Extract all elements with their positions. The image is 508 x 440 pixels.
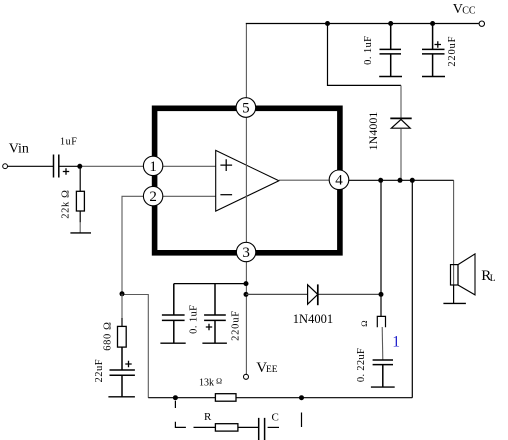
- VEE terminal: [244, 374, 249, 379]
- resistor 680 lead: [121, 294, 123, 327]
- label 220uF top: [447, 36, 458, 67]
- svg-text:1uF: 1uF: [60, 136, 77, 147]
- resistor 22k lead to ground: [79, 211, 81, 233]
- resistor 680 ohm body: [118, 326, 127, 347]
- pin 1: [143, 156, 162, 175]
- op-amp plus input mark: [220, 159, 232, 171]
- wire corner to diode D1: [400, 85, 402, 118]
- input terminal: [3, 164, 8, 169]
- svg-text:4: 4: [335, 173, 343, 189]
- label 1N4001 top: [366, 112, 380, 151]
- label 0.1uF bottom: [188, 305, 199, 334]
- label VCC: [453, 2, 476, 17]
- junction dot diode row: [244, 292, 249, 297]
- dashed stub left of RC branch: [175, 401, 186, 428]
- pin 5: [236, 98, 256, 118]
- svg-text:22k Ω: 22k Ω: [61, 189, 72, 218]
- svg-text:220uF: 220uF: [231, 310, 242, 341]
- wire pin 3 riser to VEE: [245, 262, 247, 375]
- dashed stub right of C: [268, 426, 279, 428]
- IC box: [155, 108, 340, 253]
- svg-text:Ω: Ω: [216, 377, 222, 386]
- ground 0.22uF: [371, 386, 395, 388]
- pin 2: [143, 186, 162, 205]
- capacitor top 220uF: [422, 24, 445, 77]
- svg-text:EE: EE: [266, 365, 278, 375]
- ground top 220uF: [422, 76, 445, 78]
- junction dot rail middle: [398, 178, 403, 183]
- op-amp U1 triangle: [216, 150, 279, 211]
- label VEE: [256, 360, 278, 376]
- capacitor 22uF: [110, 347, 135, 397]
- capacitor C 1uF: [54, 155, 59, 178]
- junction dot bottom rail left: [173, 395, 178, 400]
- capacitor bottom 0.1uF: [162, 284, 185, 344]
- wire R to C: [238, 426, 259, 428]
- junction dot rail right: [410, 178, 415, 183]
- wire pin 2 to op-amp: [153, 195, 216, 197]
- wire pin 5 riser to VCC rail: [245, 24, 247, 99]
- svg-text:0. 1uF: 0. 1uF: [188, 305, 199, 334]
- wire VCC to diode corner: [328, 24, 402, 86]
- ground bottom 0.1uF: [160, 342, 185, 344]
- svg-text:Vin: Vin: [9, 142, 29, 157]
- svg-text:CC: CC: [462, 6, 476, 17]
- svg-text:L: L: [490, 274, 496, 284]
- wire diode D1 to pin 4 rail: [400, 129, 402, 181]
- wire feedback pin 2 left and down: [122, 196, 153, 293]
- polarity plus 22uF: [125, 361, 131, 367]
- wire speaker riser: [453, 180, 455, 284]
- node A junction dot: [77, 164, 82, 169]
- label ohm small: [359, 320, 369, 327]
- pin 3: [236, 242, 255, 261]
- label Vin: [9, 142, 29, 157]
- polarity plus bottom 220uF: [206, 324, 212, 330]
- ground top 0.1uF: [379, 76, 402, 78]
- wire feedback branch to bottom rail: [122, 295, 148, 398]
- label blue 1: [392, 333, 400, 350]
- label 13k ohm: [199, 377, 222, 389]
- polarity plus 1uF: [63, 168, 69, 174]
- VCC terminal: [479, 21, 484, 26]
- junction dot caps rail: [244, 281, 249, 286]
- svg-text:C: C: [272, 412, 279, 424]
- label 0.22uF: [356, 348, 367, 382]
- label C: [272, 412, 279, 424]
- junction dot feedback node: [120, 291, 125, 296]
- wire cap to node A: [59, 165, 80, 167]
- rail pin3 caps: [174, 283, 246, 285]
- label 0.1uF top: [363, 36, 374, 65]
- svg-text:1: 1: [392, 333, 400, 350]
- dashed stub right end RC branch: [301, 413, 303, 428]
- label 220uF bottom: [231, 310, 242, 341]
- resistor 1 ohm body: [377, 316, 385, 327]
- capacitor 0.22uF: [373, 360, 393, 387]
- svg-text:13k: 13k: [199, 378, 214, 389]
- junction dot VCC rail 2: [388, 21, 393, 26]
- junction dot VCC rail 3: [430, 21, 435, 26]
- svg-text:0. 1uF: 0. 1uF: [363, 36, 374, 65]
- svg-text:22uF: 22uF: [94, 359, 105, 383]
- diode D2 1N4001: [308, 284, 318, 305]
- label 1uF: [60, 136, 77, 147]
- label 1N4001 bottom: [293, 312, 333, 326]
- label R: [204, 411, 212, 423]
- VCC rail: [246, 23, 479, 25]
- svg-text:5: 5: [242, 100, 250, 116]
- label 22uF: [94, 359, 105, 383]
- polarity plus top 220uF: [435, 41, 442, 48]
- wire Vin input segment: [8, 165, 54, 167]
- speaker RL: [451, 254, 476, 304]
- svg-text:1N4001: 1N4001: [366, 112, 380, 151]
- junction dot snubber diode row: [379, 292, 384, 297]
- svg-text:0. 22uF: 0. 22uF: [356, 348, 367, 382]
- capacitor top 0.1uF: [380, 24, 402, 77]
- junction dot rail left: [378, 178, 383, 183]
- pin 4 rail: [349, 179, 454, 181]
- wire diode row: [246, 293, 381, 295]
- wire right riser to bottom rail: [411, 180, 413, 397]
- bottom rail: [148, 397, 412, 399]
- wire pin5 to pin3 through op-amp: [245, 117, 247, 242]
- wire 1 ohm to 0.22uF: [381, 327, 384, 360]
- pin 4: [329, 170, 349, 190]
- resistor R body: [215, 424, 238, 431]
- resistor 13k body: [215, 394, 236, 402]
- label RL: [481, 268, 496, 284]
- label 680 ohm: [103, 321, 114, 350]
- svg-text:R: R: [204, 411, 212, 423]
- wire node A to pin 1: [80, 165, 216, 167]
- capacitor bottom 220uF: [204, 284, 226, 344]
- svg-text:680 Ω: 680 Ω: [103, 321, 114, 350]
- ground 22uF: [108, 396, 134, 398]
- ground bottom 220uF: [202, 342, 227, 344]
- svg-text:1: 1: [149, 159, 157, 175]
- svg-text:3: 3: [242, 245, 250, 261]
- svg-text:Ω: Ω: [359, 320, 369, 327]
- op-amp minus input mark: [220, 194, 232, 196]
- svg-text:2: 2: [149, 189, 157, 205]
- label 22k ohm: [61, 189, 72, 218]
- junction dot bottom rail right: [299, 395, 304, 400]
- ground speaker: [443, 302, 466, 304]
- wire riser snubber: [380, 180, 382, 316]
- svg-text:1N4001: 1N4001: [293, 312, 333, 326]
- resistor 22k lead down: [79, 166, 81, 191]
- svg-text:220uF: 220uF: [447, 36, 458, 67]
- ground 22k: [70, 232, 91, 234]
- junction dot VCC rail 1: [325, 21, 330, 26]
- diode D1 1N4001: [390, 118, 411, 128]
- wire RC branch left: [194, 426, 216, 428]
- capacitor C plates: [259, 418, 265, 440]
- wire op-amp output to pin 4: [279, 179, 330, 181]
- resistor R 22k body: [76, 191, 84, 211]
